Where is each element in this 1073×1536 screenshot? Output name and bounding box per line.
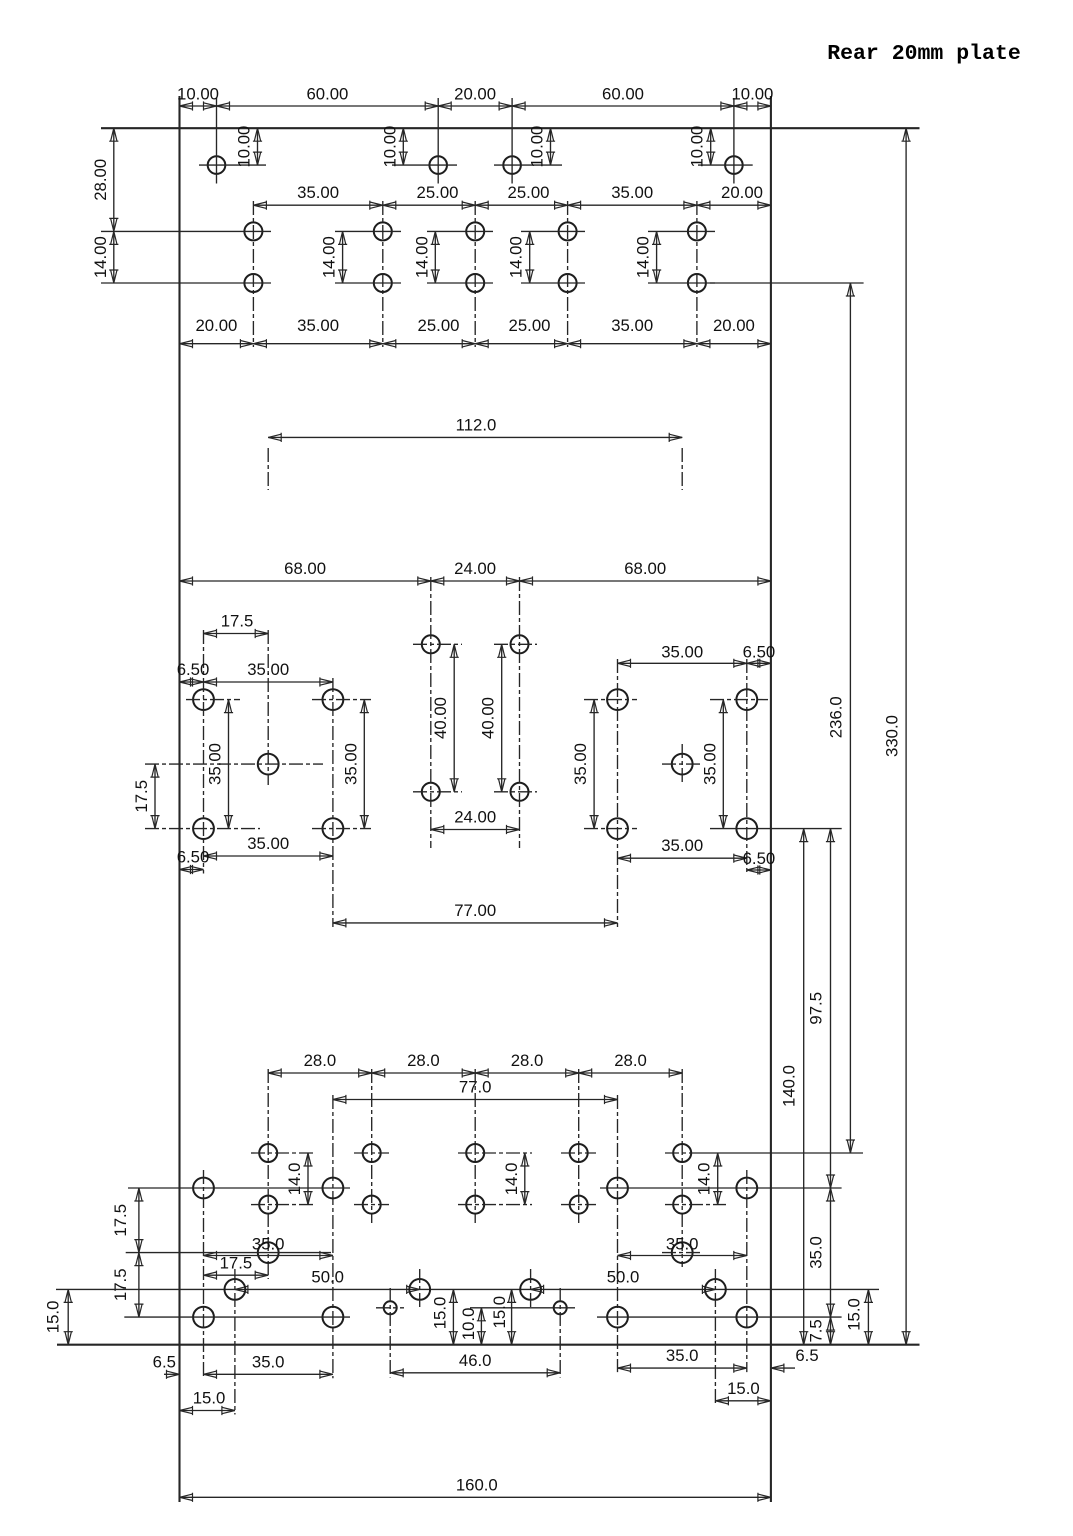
svg-text:24.00: 24.00 — [454, 808, 496, 827]
centerline row 278 col108 — [561, 1152, 596, 1154]
svg-text:35.00: 35.00 — [611, 316, 653, 335]
svg-text:28.0: 28.0 — [614, 1051, 647, 1070]
svg-text:10.00: 10.00 — [688, 126, 707, 168]
centerline row 42 col140 — [648, 282, 715, 284]
dimension chain 68.00/24.00/68.00 — [180, 559, 771, 586]
centerline mark x=136 — [681, 448, 683, 490]
svg-text:35.00: 35.00 — [247, 660, 289, 679]
dimension chain 20.00/35.00/25.00/25.00/35.00/20.00 — [180, 316, 771, 349]
svg-text:10.00: 10.00 — [528, 126, 547, 168]
dimension 6.50 left cluster bottom — [177, 848, 210, 875]
hole V1 (57,320) — [384, 1301, 397, 1314]
dimension 14.0 at x=308.0 — [285, 1153, 313, 1205]
hole C3 (80,42) — [466, 274, 484, 292]
hole C4 (105,42) — [559, 274, 577, 292]
svg-text:46.0: 46.0 — [459, 1351, 492, 1370]
svg-text:10.0: 10.0 — [459, 1308, 478, 1341]
svg-text:35.0: 35.0 — [666, 1235, 699, 1254]
centerline col 68 vertical — [430, 577, 432, 848]
centerline col 153.5 bottom vertical — [746, 1170, 748, 1372]
dimension 15.0 far left — [44, 1289, 73, 1344]
hole T1 (24,305) — [258, 1242, 279, 1263]
dimension 112.0 — [268, 415, 682, 442]
dimension 6.50 right cluster bottom — [743, 849, 776, 875]
dimension 6.50/35.00 left cluster top — [177, 660, 333, 687]
svg-text:20.00: 20.00 — [195, 316, 237, 335]
svg-text:35.0: 35.0 — [807, 1236, 826, 1269]
svg-text:14.00: 14.00 — [91, 236, 110, 278]
row 315 centerline full — [56, 1288, 879, 1290]
svg-text:50.0: 50.0 — [607, 1267, 640, 1286]
centerline row 278 col52 — [354, 1152, 389, 1154]
svg-text:Rear 20mm plate: Rear 20mm plate — [827, 42, 1021, 66]
centerline row 292 col52 — [354, 1204, 389, 1206]
svg-text:17.5: 17.5 — [221, 612, 254, 631]
dimension 17.5 horizontal bottom-left — [204, 1254, 269, 1280]
svg-text:236.0: 236.0 — [827, 696, 846, 738]
centerline L1 horizontal — [186, 699, 240, 701]
plate top edge — [101, 127, 920, 129]
centerline L2 horizontal — [312, 699, 371, 701]
svg-text:17.5: 17.5 — [111, 1268, 130, 1301]
centerline col 41.5 vertical — [332, 678, 334, 927]
centerline L3 horizontal — [145, 828, 260, 830]
centerline row 287.5 left — [128, 1187, 350, 1189]
hole Q3 (80,292) — [466, 1196, 484, 1214]
centerline R3 horizontal — [584, 828, 637, 830]
svg-text:17.5: 17.5 — [132, 780, 151, 813]
svg-text:25.00: 25.00 — [508, 183, 550, 202]
centerline mark x=24 — [267, 448, 269, 490]
svg-text:14.00: 14.00 — [320, 236, 339, 278]
centerline row 292 col24 — [251, 1204, 316, 1206]
dimension 14.00 at x=529.7 — [507, 231, 535, 283]
svg-text:68.00: 68.00 — [624, 559, 666, 578]
svg-text:25.00: 25.00 — [417, 183, 459, 202]
dimension 10.00 at hole A2 — [380, 126, 408, 168]
centerline row 322.5 right with extension — [597, 1316, 842, 1318]
svg-text:68.00: 68.00 — [284, 559, 326, 578]
svg-text:40.00: 40.00 — [431, 697, 450, 739]
centerline col 136 bottom vertical — [681, 1069, 683, 1267]
centerline column 140 vertical — [696, 201, 698, 347]
centerline row 172.5 left — [145, 763, 323, 765]
centerline M1 horizontal — [413, 643, 462, 645]
dimension 40.00 right — [479, 644, 507, 792]
dimension 35.00 left cluster left side — [206, 700, 234, 829]
hole L2 (41.5,155) — [323, 689, 344, 710]
dimension 50.0 right — [531, 1267, 716, 1294]
dimension 35.00 right cluster bottom — [618, 836, 747, 863]
hole W1 (6.5,322.5) — [193, 1307, 214, 1328]
centerline col 15 vertical — [234, 1269, 236, 1415]
svg-text:60.00: 60.00 — [602, 85, 644, 104]
svg-text:160.0: 160.0 — [456, 1475, 498, 1494]
svg-text:35.00: 35.00 — [206, 743, 225, 785]
extension row 42 right — [710, 282, 864, 284]
svg-text:97.5: 97.5 — [807, 992, 826, 1025]
hole Q2 (52,292) — [363, 1196, 381, 1214]
svg-text:15.0: 15.0 — [490, 1296, 509, 1329]
centerline R5 horizontal — [662, 763, 702, 765]
svg-text:28.00: 28.00 — [91, 159, 110, 201]
plate bottom edge — [57, 1344, 920, 1346]
svg-text:35.0: 35.0 — [252, 1235, 285, 1254]
dimension 28.00/14.00 left margin — [91, 128, 119, 283]
dimension 35.00 right cluster left side — [571, 700, 599, 829]
hole U1 (15,315) — [225, 1279, 246, 1300]
hole L1 (6.5,155) — [193, 689, 214, 710]
centerline row 42 col105 — [521, 282, 585, 284]
dimension 14.0 at x=717.7 — [695, 1153, 723, 1205]
centerline col 65 vertical — [419, 1269, 421, 1309]
dimension 15.0 mid-bottom right — [490, 1289, 516, 1344]
centerline row 278 col136 with extension right — [665, 1152, 863, 1154]
svg-text:60.00: 60.00 — [306, 85, 348, 104]
dimension 46.0 bottom middle — [390, 1351, 560, 1378]
dimension 35.00 right cluster right side — [700, 700, 728, 829]
hole B2 (55,28) — [374, 222, 392, 240]
dimension 330.0 — [882, 128, 910, 1345]
centerline L4 horizontal — [312, 828, 371, 830]
centerline A4 vertical — [733, 98, 735, 184]
title: Rear 20mm plate — [827, 42, 1021, 66]
dimension 14.00 at x=656.6 — [634, 231, 662, 283]
centerline col 153.5 vertical — [746, 659, 748, 874]
centerline M2 horizontal — [494, 643, 537, 645]
dimension 140.0 — [780, 829, 809, 1345]
dimension 10.00 at hole A3 — [528, 126, 556, 168]
centerline col 57 vertical — [389, 1288, 391, 1378]
dimension 35.00 left cluster right side — [341, 700, 369, 829]
centerline col 95 vertical — [530, 1269, 532, 1309]
centerline row 278 col80 — [458, 1152, 532, 1154]
hole V2 (103,320) — [554, 1301, 567, 1314]
hole P4 (108,278) — [570, 1144, 588, 1162]
svg-text:10.00: 10.00 — [177, 85, 219, 104]
dimension 14.00 at x=342.6 — [320, 231, 348, 283]
dimension 6.5 bottom left — [153, 1352, 180, 1379]
hole B3 (80,28) — [466, 222, 484, 240]
dimension 35.0 bottom-left cluster — [204, 1235, 333, 1261]
svg-text:14.0: 14.0 — [695, 1163, 714, 1196]
centerline row 42 col55 — [335, 282, 401, 284]
hole R2 (153.5,155) — [736, 689, 757, 710]
dimension chain 35.00/25.00/25.00/35.00/20.00 — [253, 183, 771, 210]
centerline col 6.5 vertical — [203, 630, 205, 874]
hole U4 (145,315) — [705, 1279, 726, 1300]
centerline A3 horizontal — [494, 164, 562, 166]
centerline row 292 col108 — [561, 1204, 596, 1206]
centerline col 145 vertical — [714, 1269, 716, 1405]
svg-text:35.00: 35.00 — [700, 743, 719, 785]
svg-text:112.0: 112.0 — [456, 415, 497, 434]
dimension chain 97.5/35.0/7.5 right — [807, 829, 836, 1345]
svg-text:28.0: 28.0 — [304, 1051, 337, 1070]
hole B5 (140,28) — [688, 222, 706, 240]
svg-text:330.0: 330.0 — [882, 715, 901, 757]
centerline R2 horizontal — [710, 699, 768, 701]
svg-text:20.00: 20.00 — [721, 183, 763, 202]
svg-text:35.0: 35.0 — [666, 1346, 699, 1365]
dimension 14.0 at x=524.8 — [502, 1153, 530, 1205]
centerline row 322.5 left — [124, 1316, 350, 1318]
centerline M4 horizontal — [494, 791, 537, 793]
hole Q1 (24,292) — [259, 1196, 277, 1214]
svg-text:15.0: 15.0 — [727, 1379, 760, 1398]
svg-text:6.50: 6.50 — [743, 643, 776, 662]
centerline row 28 left — [101, 230, 271, 232]
hole A4 (150,10) — [725, 156, 743, 174]
centerline A3 vertical — [511, 98, 513, 184]
centerline A1 vertical — [216, 98, 218, 184]
hole M1 (68,140) — [422, 635, 440, 653]
hole C1 (20,42) — [244, 274, 262, 292]
extension row 190 right — [710, 828, 842, 830]
dimension 35.0 bottom right — [618, 1346, 747, 1373]
centerline col 136 mid vertical — [681, 744, 683, 785]
dimension 15.0 bottom right corner — [715, 1379, 771, 1406]
hole R5 center (136,172.5) — [672, 754, 693, 775]
centerline column 105 vertical — [567, 201, 569, 347]
svg-text:77.00: 77.00 — [454, 901, 496, 920]
dimension 17.5 left cluster bottom-left — [132, 764, 160, 829]
svg-text:17.5: 17.5 — [111, 1204, 130, 1237]
centerline col 80 vertical — [474, 1069, 476, 1223]
hole L3 (6.5,190) — [193, 818, 214, 839]
svg-text:28.0: 28.0 — [511, 1051, 544, 1070]
dimension 14.00 at x=435.3 — [412, 231, 440, 283]
dimension 236.0 — [827, 283, 856, 1153]
centerline row 305 left — [126, 1252, 331, 1254]
hole M4 (92,180) — [511, 783, 529, 801]
hole L4 (41.5,190) — [323, 818, 344, 839]
dimension 35.0 bottom left — [204, 1352, 333, 1379]
dimension 15.0 bottom left margin — [180, 1389, 235, 1416]
centerline row 28 col80 — [427, 230, 493, 232]
hole B4 (105,28) — [559, 222, 577, 240]
hole C5 (140,42) — [688, 274, 706, 292]
svg-text:15.0: 15.0 — [193, 1389, 226, 1408]
hole W4 (153.5,322.5) — [736, 1307, 757, 1328]
centerline A1 horizontal — [199, 164, 266, 166]
hole P2 (52,278) — [363, 1144, 381, 1162]
svg-text:7.5: 7.5 — [807, 1319, 826, 1342]
svg-text:25.00: 25.00 — [509, 316, 551, 335]
plate right edge — [770, 96, 772, 1502]
centerline col 118.5 bottom vertical — [617, 1095, 619, 1372]
svg-text:25.00: 25.00 — [418, 316, 460, 335]
dimension 15.0 mid-bottom left — [430, 1289, 458, 1344]
dimension 6.5 bottom right — [771, 1346, 819, 1373]
dimension 160.0 — [180, 1475, 771, 1502]
svg-text:6.5: 6.5 — [795, 1346, 818, 1365]
centerline row 28 col140 — [648, 230, 715, 232]
dimension 77.0 — [333, 1078, 618, 1105]
centerline A2 vertical — [437, 98, 439, 184]
centerline col 24 bottom vertical — [267, 1069, 269, 1279]
dimension 10.00 at hole A1 — [235, 126, 263, 168]
svg-text:17.5: 17.5 — [220, 1254, 253, 1273]
hole R3 (118.5,190) — [607, 818, 628, 839]
centerline R1 horizontal — [584, 699, 637, 701]
svg-text:10.00: 10.00 — [731, 85, 773, 104]
svg-text:6.50: 6.50 — [177, 848, 210, 867]
centerline row 292 col136 — [665, 1204, 726, 1206]
svg-text:24.00: 24.00 — [454, 559, 496, 578]
svg-text:20.00: 20.00 — [454, 85, 496, 104]
dimension 50.0 left — [235, 1267, 420, 1294]
svg-text:20.00: 20.00 — [713, 316, 755, 335]
dimension 15.0 bottom right margin — [845, 1289, 874, 1344]
svg-text:14.00: 14.00 — [634, 236, 653, 278]
svg-text:50.0: 50.0 — [311, 1267, 344, 1286]
dimension 35.00 left cluster bottom — [204, 834, 333, 861]
svg-text:6.50: 6.50 — [743, 849, 776, 868]
hole Q5 (136,292) — [673, 1196, 691, 1214]
svg-text:15.0: 15.0 — [845, 1298, 864, 1331]
svg-text:6.50: 6.50 — [177, 660, 210, 679]
svg-text:14.00: 14.00 — [412, 236, 431, 278]
hole Q4 (108,292) — [570, 1196, 588, 1214]
dimension 35.0 bottom-right cluster — [618, 1235, 747, 1261]
svg-text:140.0: 140.0 — [780, 1065, 799, 1107]
centerline row 28 col55 — [335, 230, 401, 232]
centerline col 41.5 bottom vertical — [332, 1095, 334, 1378]
svg-text:35.0: 35.0 — [252, 1352, 285, 1371]
centerline M3 horizontal — [413, 791, 462, 793]
dimension 17.5/17.5 chain left — [111, 1188, 144, 1317]
svg-text:35.00: 35.00 — [297, 316, 339, 335]
centerline column 20 vertical — [252, 201, 254, 347]
hole P5 (136,278) — [673, 1144, 691, 1162]
hole M3 (68,180) — [422, 783, 440, 801]
hole S2 (41.5,287.5) — [323, 1178, 344, 1199]
centerline col 92 vertical — [519, 577, 521, 848]
centerline column 55 vertical — [382, 201, 384, 347]
centerline col 24 vertical — [267, 630, 269, 785]
centerline T2 horizontal — [662, 1252, 702, 1254]
svg-text:14.0: 14.0 — [285, 1163, 304, 1196]
dimension 24.00 — [431, 808, 520, 835]
hole A3 (90,10) — [503, 156, 521, 174]
centerline A4 horizontal — [698, 164, 753, 166]
dimension chain 28.0 x4 — [268, 1051, 682, 1078]
centerline col 108 vertical — [578, 1069, 580, 1223]
svg-text:35.00: 35.00 — [611, 183, 653, 202]
svg-text:15.0: 15.0 — [44, 1301, 63, 1334]
centerline col 6.5 bottom vertical — [203, 1170, 205, 1378]
centerline col 118.5 vertical — [617, 659, 619, 927]
dimension 77.00 — [333, 901, 618, 928]
hole T2 (136,305) — [672, 1242, 693, 1263]
centerline column 80 vertical — [474, 201, 476, 347]
hole A2 (70,10) — [429, 156, 447, 174]
hole C2 (55,42) — [374, 274, 392, 292]
centerline row 292 col80 — [458, 1204, 532, 1206]
dimension 10.0 mid-bottom — [459, 1308, 486, 1345]
hole S1 (6.5,287.5) — [193, 1178, 214, 1199]
hole W2 (41.5,322.5) — [323, 1307, 344, 1328]
centerline row 287.5 right with extension — [600, 1187, 842, 1189]
centerline row 320 extension — [470, 1307, 575, 1309]
centerline col 103 vertical — [559, 1288, 561, 1378]
centerline row 28 col105 — [521, 230, 585, 232]
hole A1 (10,10) — [208, 156, 226, 174]
svg-text:35.00: 35.00 — [661, 836, 703, 855]
hole S3 (118.5,287.5) — [607, 1178, 628, 1199]
dimension 40.00 left — [431, 644, 459, 792]
svg-text:14.00: 14.00 — [507, 236, 526, 278]
dimension 10.00 at hole A4 — [688, 126, 716, 168]
svg-text:35.00: 35.00 — [297, 183, 339, 202]
svg-text:35.00: 35.00 — [341, 743, 360, 785]
hole M2 (92,140) — [511, 635, 529, 653]
svg-text:10.00: 10.00 — [380, 126, 399, 168]
dimension 17.5 left cluster top — [204, 612, 269, 639]
svg-text:28.0: 28.0 — [407, 1051, 440, 1070]
svg-text:15.0: 15.0 — [430, 1297, 449, 1330]
hole P3 (80,278) — [466, 1144, 484, 1162]
hole U3 (95,315) — [520, 1279, 541, 1300]
svg-text:35.00: 35.00 — [661, 643, 703, 662]
hole W3 (118.5,322.5) — [607, 1307, 628, 1328]
plate left edge — [178, 96, 180, 1502]
svg-text:14.0: 14.0 — [502, 1163, 521, 1196]
svg-text:40.00: 40.00 — [479, 697, 498, 739]
centerline row 42 col80 — [427, 282, 493, 284]
hole R1 (118.5,155) — [607, 689, 628, 710]
hole L5 center (24,172.5) — [258, 754, 279, 775]
hole S4 (153.5,287.5) — [736, 1178, 757, 1199]
dimension 35.00/6.50 right cluster top — [618, 643, 776, 668]
hole P1 (24,278) — [259, 1144, 277, 1162]
centerline row 278 col24 — [251, 1152, 316, 1154]
svg-text:35.00: 35.00 — [247, 834, 289, 853]
centerline row 42 left — [101, 282, 271, 284]
centerline V1 horizontal — [376, 1307, 404, 1309]
centerline col 52 vertical — [371, 1069, 373, 1223]
centerline A2 horizontal — [392, 164, 457, 166]
hole R4 (153.5,190) — [736, 818, 757, 839]
svg-text:35.00: 35.00 — [571, 743, 590, 785]
svg-text:6.5: 6.5 — [153, 1352, 176, 1371]
svg-text:10.00: 10.00 — [235, 126, 254, 168]
hole B1 (20,28) — [244, 222, 262, 240]
hole U2 (65,315) — [409, 1279, 430, 1300]
dimension chain 10.00/60.00/20.00/60.00/10.00 top — [177, 85, 773, 111]
